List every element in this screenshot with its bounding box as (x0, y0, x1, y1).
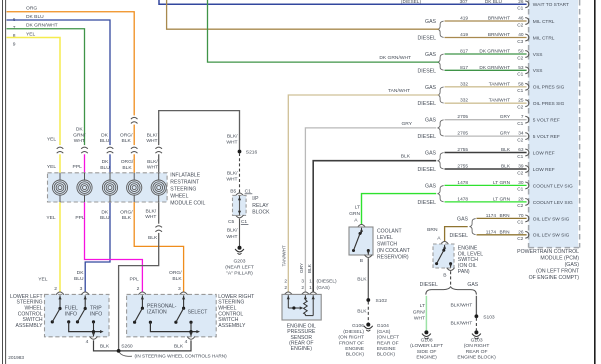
brace GAS/DIESEL pair (438, 120, 444, 136)
wire BLK coolant switch to S102 (367, 258, 369, 300)
wire 332 TAN/WHT to PCM pin 58 C1 (OIL PRES SIG GAS) (445, 86, 527, 88)
svg-text:2755: 2755 (457, 164, 468, 170)
brace GAS/DIESEL pair (438, 54, 444, 70)
inline connector on ORG wire (130, 115, 138, 124)
svg-text:2: 2 (284, 285, 287, 291)
svg-text:ORG/: ORG/ (120, 132, 133, 138)
wire LT GRN COOLNT LEV SIG merged to coolant level switch (362, 194, 437, 225)
I/P relay block box (233, 195, 247, 215)
svg-text:C1: C1 (517, 220, 523, 226)
svg-text:BLU: BLU (74, 276, 84, 282)
svg-text:YEL: YEL (38, 277, 48, 283)
svg-text:OIL PRES SIG: OIL PRES SIG (533, 85, 565, 91)
svg-text:BLU: BLU (100, 138, 110, 144)
svg-text:BLK/WHT: BLK/WHT (450, 302, 472, 308)
brace GAS/DIESEL pair (438, 186, 444, 202)
svg-text:C1: C1 (517, 154, 523, 160)
svg-text:7: 7 (521, 114, 524, 120)
svg-text:"A" PILLAR): "A" PILLAR) (226, 270, 253, 276)
svg-text:WHT: WHT (226, 234, 237, 240)
svg-text:BLK/: BLK/ (147, 132, 158, 138)
svg-text:BLOCK: BLOCK (252, 209, 270, 215)
wire YEL pin 9 down to fuel info switch (7, 38, 61, 292)
svg-text:GRY: GRY (401, 121, 412, 127)
lower right box internal bus to pin 4 (149, 321, 152, 324)
svg-text:FRONT OF: FRONT OF (339, 340, 364, 346)
wire DK BLU pin 7 down to coil / lower-left trip switch (7, 20, 111, 292)
coolant level switch contacts (361, 228, 363, 234)
wire DK GRN/WHT pin 8 upper segment (7, 29, 85, 150)
brace GAS/DIESEL pair (438, 87, 444, 103)
svg-text:LOW REF: LOW REF (533, 167, 555, 173)
svg-text:GRY: GRY (500, 131, 511, 137)
ground G106/G104 (366, 323, 370, 327)
svg-text:B5: B5 (230, 189, 236, 195)
wire BLK lower left box to S260 (94, 340, 118, 351)
wire BLK/WHT relay block to ground G203 (239, 219, 241, 246)
wire BLK/WHT from coil box up and over to S216 (159, 111, 240, 173)
svg-text:LT GRN: LT GRN (493, 196, 511, 202)
svg-text:7: 7 (13, 25, 16, 31)
wire 1478 LT GRN to PCM pin 30 C1 (COOLNT LEV SIG GAS) (445, 184, 527, 186)
wire 1174 BRN to PCM pin 70 C1 (OIL LEV SW SIG GAS) (477, 217, 527, 219)
svg-text:WHT: WHT (226, 140, 237, 146)
svg-text:G104: G104 (377, 323, 389, 329)
brace GAS/DIESEL pair (438, 153, 444, 169)
module coil winding (158, 173, 160, 181)
wire LT GRN/WHT to ground G108 (425, 296, 427, 331)
svg-text:34: 34 (518, 131, 524, 137)
svg-text:(DIESEL): (DIESEL) (317, 279, 337, 285)
wire DK BLU (DIESEL) WAIT TO START from top edge (159, 0, 527, 4)
ground G203 (238, 246, 242, 250)
svg-text:ORG/: ORG/ (169, 270, 182, 276)
wire BLK/WHT coil to S260 splice (119, 173, 159, 351)
svg-text:(ON LEFT: (ON LEFT (377, 335, 399, 341)
svg-text:RESERVOIR): RESERVOIR) (377, 255, 409, 261)
svg-text:TAN/WHT: TAN/WHT (282, 245, 288, 266)
svg-text:WHT: WHT (145, 214, 156, 220)
svg-text:GRY: GRY (500, 114, 511, 120)
inline connector chevrons (130, 145, 138, 154)
svg-text:DK: DK (101, 209, 109, 215)
svg-text:(GAS): (GAS) (565, 262, 580, 268)
pin cup 63 (525, 149, 529, 156)
ground G103 (474, 330, 478, 334)
pin cup 28 (525, 199, 529, 206)
svg-text:SELECT: SELECT (188, 310, 208, 316)
svg-text:(NEAR LEFT: (NEAR LEFT (225, 264, 254, 270)
svg-text:(ON RIGHT: (ON RIGHT (464, 343, 490, 349)
connector cup B at coolant level switch (364, 255, 372, 258)
pin cup 70 (525, 215, 529, 222)
svg-text:2: 2 (54, 286, 57, 292)
svg-text:IZATION: IZATION (147, 310, 167, 316)
wire 2755 BLK to PCM pin 63 C1 (LOW REF GAS) (445, 152, 527, 154)
svg-text:ORG/: ORG/ (121, 159, 134, 165)
svg-text:C2: C2 (517, 170, 523, 176)
svg-text:WHT: WHT (74, 138, 85, 144)
svg-text:LOW REF: LOW REF (533, 150, 555, 156)
svg-text:BRN/WHT: BRN/WHT (488, 32, 510, 38)
pin cup 53 (525, 67, 529, 74)
svg-text:419: 419 (460, 32, 468, 38)
module coil winding (133, 173, 135, 181)
svg-text:BLK: BLK (357, 277, 367, 283)
svg-text:8: 8 (13, 33, 16, 39)
svg-text:ENGINE: ENGINE (345, 346, 365, 352)
svg-text:ENGINE): ENGINE) (416, 355, 437, 361)
svg-text:2755: 2755 (457, 147, 468, 153)
wire DK GRN/WHT VSS merged from top edge (208, 0, 439, 62)
wire BLK/WHT to S103 (475, 296, 477, 317)
svg-text:1174: 1174 (486, 213, 497, 219)
svg-text:BRN: BRN (427, 227, 438, 233)
svg-text:ASSEMBLY: ASSEMBLY (218, 323, 246, 329)
svg-text:(ON LEFT FRONT: (ON LEFT FRONT (536, 269, 580, 275)
coolant level switch box (349, 227, 373, 255)
pin cup 50 (525, 51, 529, 58)
wire 817 DK GRN/WHT to PCM pin 50 C2 (VSS GAS) (445, 53, 527, 55)
svg-text:ORG/: ORG/ (120, 209, 133, 215)
svg-text:2705: 2705 (457, 114, 468, 120)
svg-text:(IN STEERING WHEEL CONTROLS HA: (IN STEERING WHEEL CONTROLS HARN) (135, 353, 228, 358)
svg-text:WHT: WHT (226, 177, 237, 183)
svg-text:58: 58 (518, 81, 524, 87)
svg-text:BLK/: BLK/ (227, 170, 238, 176)
svg-text:332: 332 (460, 98, 468, 104)
svg-text:26: 26 (518, 229, 524, 235)
connector cups into lower right box (139, 292, 147, 295)
svg-text:DIESEL: DIESEL (418, 167, 437, 173)
svg-text:GRY: GRY (299, 262, 305, 273)
wire 332 TAN/WHT to PCM pin 25 C2 (OIL PRES SIG DIESEL) (445, 102, 527, 104)
wire 817 DK GRN/WHT to PCM pin 53 C1 (VSS DIESEL) (445, 69, 527, 71)
svg-text:4: 4 (185, 339, 188, 345)
connector cups into oil pressure sensor (284, 292, 292, 295)
module coil winding (59, 173, 61, 181)
svg-text:SWITCH: SWITCH (377, 242, 397, 248)
svg-text:GRN: GRN (349, 211, 360, 217)
brace GAS/DIESEL pair (438, 21, 444, 37)
svg-text:S102: S102 (376, 298, 388, 304)
splice S216 (238, 150, 242, 154)
svg-text:REAR OF: REAR OF (377, 340, 399, 346)
pin cup 26 (525, 1, 529, 8)
svg-text:GAS: GAS (457, 216, 468, 222)
svg-text:STEERING: STEERING (170, 186, 196, 192)
svg-text:3: 3 (301, 279, 304, 285)
svg-text:2705: 2705 (457, 131, 468, 137)
svg-text:5 VOLT REF: 5 VOLT REF (533, 118, 560, 124)
svg-text:DK: DK (102, 159, 110, 165)
svg-text:PAN): PAN) (458, 269, 470, 275)
dashed wire S102 to ground (367, 302, 369, 323)
svg-text:C2: C2 (517, 105, 523, 111)
svg-text:DK: DK (101, 132, 109, 138)
svg-text:419: 419 (460, 16, 468, 22)
svg-text:MODULE COIL: MODULE COIL (170, 200, 205, 206)
svg-text:G203: G203 (233, 258, 245, 264)
svg-text:TAN/WHT: TAN/WHT (489, 81, 510, 87)
svg-text:S260: S260 (121, 343, 133, 349)
svg-text:BLK: BLK (172, 276, 182, 282)
lower right steering wheel control switch assembly box (127, 294, 217, 336)
svg-text:YEL: YEL (26, 31, 36, 37)
svg-text:28: 28 (518, 196, 524, 202)
svg-text:BLK/: BLK/ (227, 228, 238, 234)
svg-text:G106: G106 (352, 323, 364, 329)
inline connector chevrons (56, 145, 64, 154)
ground G108 (424, 330, 428, 334)
svg-text:BRN: BRN (499, 213, 510, 219)
svg-text:2: 2 (301, 285, 304, 291)
pin cup 46 (525, 18, 529, 25)
svg-text:WHT: WHT (147, 165, 158, 171)
svg-text:LT GRN: LT GRN (493, 180, 511, 186)
svg-text:C1: C1 (517, 6, 523, 12)
svg-text:DK: DK (76, 127, 84, 133)
svg-text:DIESEL: DIESEL (420, 282, 438, 288)
wire ORG pin 6 from left edge down to coil / lower-right select switch (7, 12, 184, 292)
svg-text:S216: S216 (246, 150, 258, 156)
svg-text:DK: DK (77, 270, 85, 276)
wire BRN OIL LEV SW SIG merged to engine oil level switch (445, 227, 468, 242)
connector cup A into coolant level switch (358, 225, 366, 228)
svg-text:BLK/: BLK/ (147, 159, 158, 165)
svg-text:BLK: BLK (122, 165, 132, 171)
svg-text:DK GRN/WHT: DK GRN/WHT (26, 23, 58, 29)
svg-text:OIL LEV SW SIG: OIL LEV SW SIG (533, 216, 570, 222)
svg-text:C5: C5 (228, 219, 235, 225)
wire 419 BRN/WHT to PCM pin 40 C3 (MIL CTRL DIESEL) (445, 37, 527, 39)
svg-text:YEL: YEL (46, 215, 56, 221)
pin cup 26 (525, 231, 529, 238)
svg-text:1: 1 (309, 279, 312, 285)
svg-text:BLK: BLK (122, 215, 132, 221)
svg-text:(GAS): (GAS) (317, 285, 331, 291)
svg-text:817: 817 (460, 65, 468, 71)
svg-text:46: 46 (518, 16, 524, 22)
svg-text:VSS: VSS (533, 68, 543, 74)
svg-text:LEVEL: LEVEL (377, 235, 393, 241)
svg-text:G103: G103 (471, 337, 483, 343)
options split brace DIESEL/GAS (426, 287, 477, 295)
connector cup A into engine oil level switch (441, 242, 449, 245)
wire 1478 LT GRN to PCM pin 28 C2 (COOLNT LEV SIG DIESEL) (445, 201, 527, 203)
svg-text:(DIESEL): (DIESEL) (343, 329, 364, 335)
svg-text:BLK/WHT: BLK/WHT (450, 320, 472, 326)
svg-text:DK BLU: DK BLU (26, 14, 44, 20)
svg-text:BLK/: BLK/ (227, 133, 238, 139)
svg-text:C2: C2 (517, 203, 523, 209)
module coil winding (109, 173, 111, 181)
wire BRN/WHT MIL CTRL merged from top edge (167, 0, 439, 29)
svg-text:SIDE OF: SIDE OF (417, 349, 437, 355)
lower left steering wheel control switch assembly box (45, 294, 110, 336)
pin cup 30 (525, 182, 529, 189)
pin cup 39 (525, 166, 529, 173)
select switch (183, 295, 185, 308)
svg-text:C1: C1 (517, 72, 523, 78)
svg-text:S103: S103 (483, 314, 495, 320)
connector cup lower right box pin 4 (187, 337, 195, 340)
svg-text:PPL: PPL (73, 164, 83, 170)
leader to harness note (120, 353, 133, 357)
svg-text:DIESEL: DIESEL (418, 68, 437, 74)
svg-text:OIL PRES SIG: OIL PRES SIG (533, 101, 565, 107)
svg-text:MODULE (PCM): MODULE (PCM) (540, 256, 579, 262)
inline connector on BLK/WHT below coil box (155, 224, 163, 233)
svg-text:DIESEL: DIESEL (418, 134, 437, 140)
wire PPL lower segment to personalization switch (85, 150, 143, 292)
inline connector chevrons (155, 145, 163, 154)
sensor internals: feed, wiper arrow, resistor (287, 295, 289, 308)
svg-text:BLK: BLK (122, 138, 132, 144)
svg-text:9: 9 (13, 42, 16, 48)
svg-text:DIESEL: DIESEL (418, 101, 437, 107)
svg-text:BLK: BLK (148, 235, 158, 241)
svg-text:LT: LT (355, 205, 360, 211)
svg-text:INFO: INFO (65, 312, 77, 318)
svg-text:INFO: INFO (90, 312, 102, 318)
svg-text:INFLATABLE: INFLATABLE (170, 173, 200, 179)
brace GAS/DIESEL pair (470, 219, 476, 235)
pin cup 40 (525, 34, 529, 41)
svg-text:BRN/WHT: BRN/WHT (488, 16, 510, 22)
svg-text:OIL LEV SW SIG: OIL LEV SW SIG (533, 233, 570, 239)
svg-text:39: 39 (518, 164, 524, 170)
svg-text:RELAY: RELAY (252, 203, 269, 209)
svg-text:WHT: WHT (146, 138, 157, 144)
pin cup 58 (525, 83, 529, 90)
wire BLK lower right box to S260 (120, 340, 191, 351)
svg-text:63: 63 (518, 147, 524, 153)
svg-text:GAS: GAS (425, 151, 436, 157)
wire 2755 BLK to PCM pin 39 C2 (LOW REF DIESEL) (445, 168, 527, 170)
svg-text:TAN/WHT: TAN/WHT (388, 88, 410, 94)
svg-text:COOLNT LEV SIG: COOLNT LEV SIG (533, 183, 573, 189)
svg-text:C1: C1 (517, 88, 523, 94)
dashed wire S103 to ground (475, 318, 477, 331)
svg-text:2: 2 (137, 286, 140, 292)
svg-text:5 VOLT REF: 5 VOLT REF (533, 134, 560, 140)
svg-text:C1: C1 (517, 121, 523, 127)
svg-text:YEL: YEL (47, 137, 57, 143)
connector cup at relay block top (236, 193, 244, 196)
svg-text:C2: C2 (517, 236, 523, 242)
svg-text:WHT: WHT (414, 315, 425, 321)
svg-text:PPL: PPL (75, 215, 85, 221)
personalization switch (141, 295, 143, 308)
svg-text:GAS: GAS (425, 183, 436, 189)
svg-text:(LOWER LEFT: (LOWER LEFT (410, 343, 443, 349)
svg-text:G108: G108 (421, 337, 433, 343)
svg-text:REAR OF: REAR OF (466, 349, 488, 355)
wire 419 BRN/WHT to PCM pin 46 C2 (MIL CTRL GAS) (445, 20, 527, 22)
svg-text:3: 3 (178, 286, 181, 292)
trip info switch (84, 295, 86, 308)
svg-text:BLK: BLK (501, 164, 511, 170)
svg-text:1478: 1478 (457, 196, 468, 202)
svg-text:DK GRN/WHT: DK GRN/WHT (479, 49, 510, 55)
svg-text:BLOCK): BLOCK) (346, 352, 365, 358)
svg-text:GAS: GAS (425, 85, 436, 91)
svg-text:BLK/: BLK/ (145, 208, 156, 214)
svg-text:40: 40 (518, 32, 524, 38)
svg-text:COOLANT: COOLANT (377, 229, 402, 235)
svg-text:LT: LT (420, 303, 425, 309)
svg-text:50: 50 (518, 49, 524, 55)
svg-text:BLK: BLK (357, 308, 367, 314)
svg-text:ASSEMBLY: ASSEMBLY (16, 323, 44, 329)
svg-text:BLOCK): BLOCK) (377, 352, 396, 358)
wire 2705 GRY to PCM pin 34 C2 (5 VOLT REF DIESEL) (445, 135, 527, 137)
wire 2705 GRY to PCM pin 7 C1 (5 VOLT REF GAS) (445, 119, 527, 121)
svg-text:C2: C2 (517, 137, 523, 143)
svg-text:BLK: BLK (501, 147, 511, 153)
svg-text:4: 4 (86, 339, 89, 345)
PCM module box (Powertrain Control Module) (529, 0, 578, 248)
svg-text:(GAS): (GAS) (377, 329, 391, 335)
svg-text:BLK: BLK (401, 154, 411, 160)
wire BLK LOW REF merged to sensor (313, 161, 436, 292)
inflatable restraint steering wheel module coil box (48, 173, 168, 202)
svg-text:POWERTRAIN CONTROL: POWERTRAIN CONTROL (517, 249, 579, 255)
svg-text:DIESEL: DIESEL (450, 233, 469, 239)
svg-text:GAS: GAS (425, 19, 436, 25)
svg-text:DK GRN/WHT: DK GRN/WHT (479, 65, 510, 71)
svg-text:C2: C2 (517, 55, 523, 61)
engine oil pressure sensor box (282, 294, 321, 320)
svg-text:OF ENGINE COMPT): OF ENGINE COMPT) (529, 275, 580, 281)
lower left box internal bus to pin 4 (67, 320, 70, 323)
wire 1174 BRN to PCM pin 26 C2 (OIL LEV SW SIG DIESEL) (477, 234, 527, 236)
svg-text:ENGINE BLOCK): ENGINE BLOCK) (457, 355, 496, 361)
splice S103 (475, 314, 479, 318)
svg-text:1: 1 (309, 285, 312, 291)
svg-text:VSS: VSS (533, 52, 543, 58)
svg-text:70: 70 (518, 213, 524, 219)
svg-text:WHEEL: WHEEL (170, 193, 188, 199)
inline connector chevrons (81, 145, 89, 154)
svg-text:C1: C1 (517, 187, 523, 193)
svg-text:332: 332 (460, 81, 468, 87)
svg-text:C3: C3 (517, 39, 523, 45)
svg-text:RESTRAINT: RESTRAINT (170, 179, 199, 185)
pin cup 7 (525, 116, 529, 123)
svg-text:1174: 1174 (486, 229, 497, 235)
svg-text:I/P: I/P (252, 196, 259, 202)
engine oil level switch contacts (444, 245, 446, 250)
svg-text:YEL: YEL (47, 164, 57, 170)
pin cup 34 (525, 133, 529, 140)
svg-text:25: 25 (518, 98, 524, 104)
svg-text:MIL CTRL: MIL CTRL (533, 35, 555, 41)
dashed wire to options split (450, 271, 452, 286)
svg-text:WAIT TO START: WAIT TO START (533, 2, 569, 8)
splice S260 (117, 349, 121, 353)
svg-text:GRN/: GRN/ (73, 132, 86, 138)
wire GRY 5 VOLT REF merged to sensor (305, 128, 436, 292)
svg-text:DK GRN/WHT: DK GRN/WHT (379, 55, 411, 61)
svg-text:ENGINE): ENGINE) (291, 346, 313, 352)
svg-text:GAS: GAS (467, 282, 478, 288)
svg-text:BLU: BLU (100, 165, 110, 171)
svg-text:MIL CTRL: MIL CTRL (533, 19, 555, 25)
wire TAN/WHT OIL PRES SIG merged to sensor (288, 95, 439, 292)
svg-text:BLU: BLU (100, 215, 110, 221)
